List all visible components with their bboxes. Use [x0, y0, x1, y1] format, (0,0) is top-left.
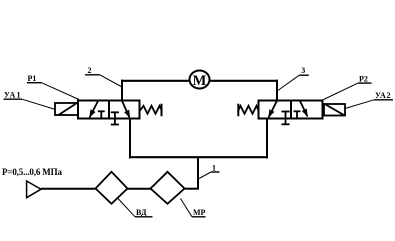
- leader VD: [118, 199, 135, 217]
- wire lubricator MP to node 1: [184, 188, 199, 190]
- solenoid UA1 diagonal: [59, 103, 77, 115]
- svg-text:3: 3: [301, 66, 305, 75]
- label VD: [135, 208, 153, 217]
- leader UA1: [22, 99, 56, 109]
- valve P2 right square flow arrow: [300, 101, 308, 117]
- lubricator MP diamond: [151, 172, 185, 204]
- solenoid UA1 box: [55, 103, 78, 115]
- svg-text:2: 2: [88, 66, 92, 75]
- svg-text:УА2: УА2: [375, 91, 391, 100]
- leader node 1: [199, 172, 211, 179]
- wire valve P2 outlet drop: [266, 118, 268, 159]
- svg-text:УА1: УА1: [4, 91, 21, 100]
- wire source to filter VD: [41, 188, 96, 190]
- valve P1 spring end plate: [161, 104, 163, 117]
- motor M1 circle: [190, 71, 210, 89]
- valve P1 left square flow arrow: [89, 101, 98, 118]
- svg-text:Р1: Р1: [28, 74, 37, 83]
- wire node 1 supply drop: [197, 157, 199, 190]
- label UA1: [4, 91, 23, 100]
- svg-text:МР: МР: [193, 208, 206, 217]
- valve P2 left square flow arrow: [268, 101, 277, 118]
- valve P2 divider: [290, 101, 292, 119]
- valve P2 right square blocked port T: [294, 111, 301, 118]
- valve P1 divider: [108, 101, 110, 119]
- svg-text:М: М: [193, 73, 207, 89]
- solenoid UA2 diagonal: [326, 105, 344, 115]
- leader MP: [181, 199, 193, 217]
- svg-text:1: 1: [212, 164, 216, 173]
- label node 1: [211, 164, 220, 173]
- label node 2: [85, 66, 100, 75]
- wire top rail left of motor: [121, 80, 189, 82]
- valve P2 return spring: [239, 106, 259, 114]
- valve P1 exhaust port symbol: [111, 112, 119, 124]
- wire node 3 vertical drop: [276, 80, 278, 102]
- wire top rail right of motor: [210, 80, 278, 82]
- filter VD diamond: [96, 172, 128, 204]
- valve P2 spring end plate: [237, 104, 239, 117]
- leader P2: [322, 83, 359, 100]
- valve P2 body: [259, 101, 323, 119]
- leader P1: [42, 83, 80, 100]
- solenoid UA2 box: [324, 104, 345, 116]
- valve P1 body: [78, 101, 140, 119]
- label UA2: [374, 91, 393, 100]
- leader node 3: [278, 75, 300, 90]
- svg-text:ВД: ВД: [136, 208, 147, 217]
- wire bottom rail: [129, 156, 268, 158]
- leader node 2: [100, 75, 122, 87]
- label P2: [358, 75, 372, 84]
- label P1: [27, 74, 42, 83]
- svg-text:Р2: Р2: [359, 75, 368, 84]
- wire filter VD to lubricator MP: [128, 188, 152, 190]
- label node 3: [299, 66, 309, 75]
- valve P1 return spring: [140, 106, 162, 114]
- wire node 2 vertical drop: [121, 80, 123, 102]
- label MP: [192, 208, 206, 217]
- pressure source triangle: [27, 181, 41, 198]
- valve P1 right square flow arrow: [122, 101, 130, 119]
- leader UA2: [345, 100, 374, 109]
- valve P2 exhaust port symbol: [282, 112, 290, 125]
- svg-text:Р=0,5...0,6 МПа: Р=0,5...0,6 МПа: [2, 167, 63, 177]
- wire valve P1 outlet drop: [129, 118, 131, 159]
- valve P1 left square blocked port T: [98, 111, 105, 118]
